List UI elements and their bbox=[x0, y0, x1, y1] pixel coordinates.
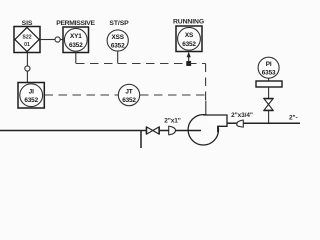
node A bbox=[55, 37, 60, 42]
signal stub to pump motor bbox=[205, 101, 207, 116]
svg-text:2"x3/4": 2"x3/4" bbox=[231, 112, 253, 119]
signal line 2 (dashed) JT to vertical bbox=[140, 94, 206, 96]
valve V2 (vertical, on PI branch) bbox=[263, 98, 273, 110]
signal line 1 (dashed) XY1 to corner bbox=[76, 63, 206, 65]
wire XY1 bottom to signal line bbox=[75, 53, 77, 64]
instrument XSS 6352 bbox=[107, 30, 128, 51]
interlock SIS S22-01 bbox=[14, 27, 40, 53]
svg-text:6352: 6352 bbox=[24, 97, 38, 104]
svg-text:XSS: XSS bbox=[112, 34, 125, 41]
node B bbox=[25, 66, 30, 71]
reducer 2"x3/4" bbox=[237, 120, 244, 128]
signal line 2 (dashed) JI to JT bbox=[45, 94, 119, 96]
svg-text:S22: S22 bbox=[22, 35, 31, 41]
svg-text:6352: 6352 bbox=[122, 97, 136, 104]
svg-text:2"-: 2"- bbox=[289, 115, 298, 122]
wire SIS bottom to node B bbox=[26, 53, 28, 66]
svg-text:6352: 6352 bbox=[182, 41, 196, 48]
svg-text:01: 01 bbox=[24, 42, 30, 48]
svg-text:XY1: XY1 bbox=[70, 33, 82, 40]
svg-text:6352: 6352 bbox=[69, 42, 83, 49]
pipe: discharge line to right edge bbox=[243, 122, 300, 124]
instrument XS 6352 bbox=[176, 26, 202, 52]
diaphragm seal bbox=[256, 81, 282, 87]
svg-text:JT: JT bbox=[125, 89, 132, 96]
svg-text:PI: PI bbox=[266, 61, 272, 68]
svg-text:JI: JI bbox=[29, 89, 34, 96]
wire SIS right to node A bbox=[40, 39, 55, 41]
instrument JI 6352 bbox=[18, 83, 44, 109]
signal arrow into XS bbox=[188, 56, 190, 64]
svg-text:PERMISSIVE: PERMISSIVE bbox=[56, 20, 95, 27]
pipe discharge stub bbox=[227, 122, 237, 124]
pipe reducer to pump bbox=[175, 130, 201, 132]
signal line vertical (dashed) down to pump bbox=[205, 64, 207, 102]
svg-text:6353: 6353 bbox=[262, 70, 276, 77]
wire XSS bottom to signal line bbox=[117, 51, 119, 63]
pipe valve to reducer bbox=[159, 130, 169, 132]
pipe branch down to edge bbox=[140, 131, 142, 149]
pump P-1 (centrifugal) bbox=[188, 115, 218, 145]
instrument XY1 6352 bbox=[63, 27, 89, 53]
instrument JT 6352 bbox=[118, 84, 139, 105]
svg-text:ST/SP: ST/SP bbox=[109, 20, 129, 27]
junction (filled square) bbox=[186, 61, 191, 66]
wire node B to JI bbox=[26, 71, 28, 82]
wire seal to valve bbox=[268, 87, 270, 99]
instrument PI 6353 bbox=[258, 57, 279, 78]
svg-text:6352: 6352 bbox=[111, 43, 125, 50]
pipe: suction line bbox=[0, 130, 146, 132]
svg-text:2"x1": 2"x1" bbox=[164, 118, 181, 125]
wire PI to seal bbox=[268, 78, 270, 81]
wire node A to XY1 bbox=[60, 39, 63, 41]
reducer 2"x1" bbox=[169, 126, 176, 136]
valve V1 (gate valve on suction) bbox=[146, 127, 159, 135]
svg-text:RUNNING: RUNNING bbox=[173, 19, 204, 26]
svg-text:XS: XS bbox=[185, 32, 194, 39]
wire valve to discharge pipe bbox=[268, 111, 270, 124]
